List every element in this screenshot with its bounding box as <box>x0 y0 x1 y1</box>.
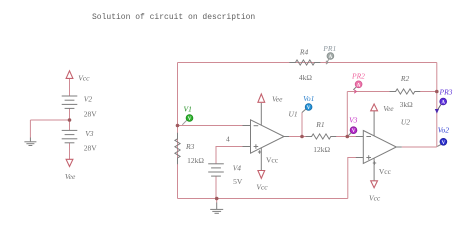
svg-text:Solution of circuit on descrip: Solution of circuit on description <box>92 13 255 22</box>
svg-text:Vcc: Vcc <box>379 167 392 176</box>
svg-text:PR1: PR1 <box>322 44 336 53</box>
svg-text:12kΩ: 12kΩ <box>187 156 204 165</box>
svg-text:V: V <box>307 106 311 111</box>
svg-text:V: V <box>442 141 446 146</box>
svg-text:Vo1: Vo1 <box>303 94 314 103</box>
svg-text:Vcc: Vcc <box>78 74 90 83</box>
svg-text:4kΩ: 4kΩ <box>299 73 313 82</box>
svg-text:U1: U1 <box>289 110 298 119</box>
svg-text:V: V <box>188 117 192 122</box>
svg-text:U2: U2 <box>401 117 410 126</box>
svg-text:Vo2: Vo2 <box>438 126 450 135</box>
svg-text:Vcc: Vcc <box>266 155 279 164</box>
svg-text:Vee: Vee <box>65 172 76 181</box>
svg-text:V3: V3 <box>349 115 358 124</box>
svg-text:R2: R2 <box>400 74 410 83</box>
svg-text:V3: V3 <box>85 129 94 138</box>
svg-text:V2: V2 <box>84 95 93 104</box>
svg-text:PR3: PR3 <box>439 88 453 97</box>
svg-text:28V: 28V <box>84 110 98 119</box>
svg-text:A: A <box>329 55 333 60</box>
svg-text:V4: V4 <box>233 163 242 172</box>
svg-text:R1: R1 <box>315 120 324 129</box>
svg-text:3kΩ: 3kΩ <box>400 100 414 109</box>
svg-text:Vcc: Vcc <box>369 194 381 203</box>
svg-text:R4: R4 <box>299 47 309 56</box>
svg-text:4: 4 <box>226 134 230 143</box>
svg-text:PR2: PR2 <box>351 71 365 80</box>
svg-text:Vee: Vee <box>272 95 283 104</box>
svg-text:28V: 28V <box>84 143 98 152</box>
svg-text:R3: R3 <box>185 142 195 151</box>
svg-text:V: V <box>352 129 356 134</box>
svg-text:A: A <box>357 83 361 88</box>
svg-text:Vee: Vee <box>383 104 394 113</box>
svg-text:12kΩ: 12kΩ <box>313 145 330 154</box>
svg-text:5V: 5V <box>233 177 243 186</box>
svg-text:V1: V1 <box>184 104 192 113</box>
svg-text:A: A <box>441 101 445 106</box>
svg-text:Vcc: Vcc <box>256 183 268 192</box>
